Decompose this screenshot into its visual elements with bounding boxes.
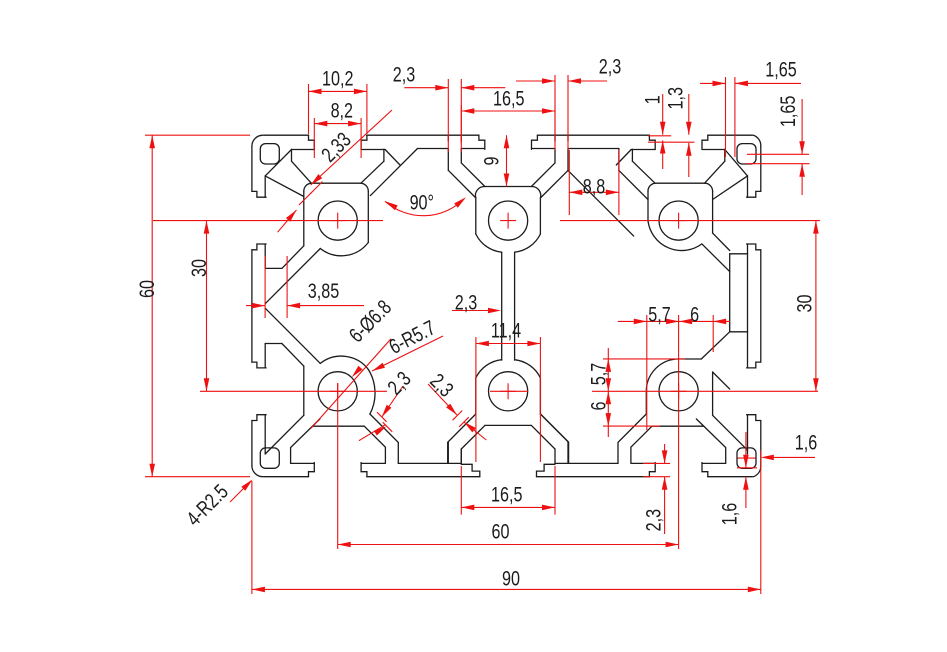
lead 6-R5.7 (372, 336, 443, 371)
svg-text:30: 30 (187, 259, 211, 277)
tube1 cavity wall right (383, 149, 385, 161)
tube3 cavity wall right (724, 149, 726, 161)
dim 8,8 arrow right (606, 190, 619, 196)
tube6 strut to chamber edge2 (713, 372, 730, 389)
svg-text:90: 90 (502, 566, 520, 590)
dim 9 arrow bot (504, 174, 510, 187)
left edge seg3 (251, 421, 253, 466)
arr 2,3bs b (662, 477, 668, 490)
ext 90 R (760, 450, 762, 594)
centre mark tube3 (671, 213, 687, 229)
tube6 SE strut edge2 (696, 419, 725, 464)
a6h2 (713, 319, 726, 325)
a57v2 (606, 378, 612, 391)
dim 10,2 arrow left (309, 89, 322, 95)
bore hole tube3 (659, 201, 698, 240)
top slot lip right x=679 (702, 135, 708, 149)
dim 2,3 ribs23 line (516, 80, 555, 82)
cavity col2 floor (485, 186, 532, 188)
side slot lip bottom edge x=252 y=391 (252, 415, 266, 421)
bottom center slot lip right (537, 464, 556, 476)
dim 1,65r tail dn (801, 164, 803, 195)
svg-text:60: 60 (492, 519, 510, 543)
ext 1,3 h (648, 141, 694, 143)
dim 16,5 bottom arrow right (542, 505, 555, 511)
dim 90 bottom arrow right (748, 587, 761, 593)
bottom slot lip left x=338 (309, 463, 315, 477)
left mid block top face (265, 267, 282, 269)
ext 10,2 L (308, 84, 310, 134)
bore hole tube4 (318, 372, 357, 411)
tick 2,3A 2 (383, 422, 393, 432)
tube2 right side (531, 186, 540, 234)
centre mark tube5 (500, 383, 516, 399)
ext 57h c (712, 315, 714, 352)
tube6 strut to chamber (701, 332, 729, 359)
bottom slot lip left x=679 (649, 463, 655, 477)
arr 2,3 web (488, 308, 501, 314)
notch23 rib right (567, 149, 569, 171)
arr 4-R2.5 (241, 480, 252, 491)
arr 2,3B a (446, 404, 457, 415)
dim 1,65t arrow b (735, 81, 748, 87)
dim 1,3 arrow a (686, 122, 692, 135)
svg-text:16,5: 16,5 (493, 86, 524, 110)
dim 90 bottom line (252, 588, 761, 590)
tick 2,33 1 (310, 182, 322, 194)
ext 16,5b R (554, 466, 556, 515)
dim 11,4 line (476, 343, 541, 345)
dim 30 right arrow top (813, 221, 819, 234)
dim 1,3 tail up (688, 94, 690, 135)
tube1 right wall (367, 192, 369, 243)
bottom edge seg1 (264, 476, 309, 478)
centerline col1 lower (337, 383, 339, 549)
dim 1,65r arrow a (799, 141, 805, 154)
arr 90deg L (385, 201, 398, 210)
dim 1,3 arrow b (686, 143, 692, 156)
tube6 foot outer flank (618, 414, 646, 463)
right chamber top (730, 253, 748, 255)
notch56 rib right (567, 442, 569, 464)
bottom slot lip right x=338 (361, 463, 367, 477)
tube6 east wall (712, 372, 714, 415)
notch45 rib right (460, 449, 462, 463)
lead 2,3A a (382, 386, 403, 417)
tick 2,3A 1 (377, 412, 387, 422)
dim 1,65t arrow a (713, 81, 726, 87)
ext 11,4 L (475, 337, 477, 462)
side slot lip top edge x=252 y=391 (252, 362, 266, 368)
a57h2 (679, 319, 692, 325)
lead 2,3A b (359, 425, 385, 441)
tube3 stub b (616, 150, 631, 166)
ext 8,2 R (360, 118, 362, 158)
tube3 cavity floor (655, 182, 705, 184)
arr 1,6 v2 (743, 477, 749, 490)
arr 2,3A b (374, 426, 387, 435)
bottom center slot lip left (461, 464, 480, 476)
notch23 ceiling (568, 148, 619, 150)
tick 2,33 2 (299, 193, 311, 205)
arr 1,6 v1 (743, 455, 749, 468)
dim 1 tail up (662, 94, 664, 135)
a57v1 (606, 359, 612, 372)
corner channel hole top-right (737, 144, 756, 164)
centre mark tube6 (671, 383, 687, 399)
notch23 strut to tube2 (540, 170, 568, 198)
ext 2,3b R (567, 75, 569, 150)
dim 9 line (506, 135, 508, 186)
arr 2,33 a (311, 174, 323, 185)
outer corner bottom-left (252, 466, 263, 477)
ext 1,65t L (725, 77, 727, 157)
bottom edge seg2 (367, 476, 480, 478)
ext 16,5t R (554, 105, 556, 143)
svg-text:10,2: 10,2 (322, 66, 353, 90)
svg-text:8,8: 8,8 (583, 174, 605, 198)
corner web face top-right (725, 150, 748, 176)
arr 2,3A a (382, 405, 392, 417)
shoulder left row2 upper (264, 344, 266, 368)
ext 2,3bs h2 (643, 476, 670, 478)
cavity below tube5 left flank (461, 425, 485, 449)
ext 8,2 L (313, 118, 315, 158)
bottom edge seg3 (537, 476, 650, 478)
dim 2,3 ribs12 line (404, 87, 448, 89)
tube3 diag to right shoulder (713, 176, 748, 200)
tick 2,3B 1 (453, 411, 463, 421)
a6v2 (606, 413, 612, 426)
notch12 stub b (385, 150, 400, 166)
tube2 left side (475, 186, 484, 234)
tube4 left wall (303, 366, 305, 415)
tube4 strut upper-left edge2 (265, 308, 320, 363)
dim 2,3 ribs23 arrow left (542, 78, 555, 84)
svg-text:1,3: 1,3 (664, 87, 688, 109)
dim 1,65r arrow b (799, 164, 805, 177)
svg-text:1,6: 1,6 (795, 430, 817, 454)
cavity below tube5 wall left (460, 449, 462, 463)
a57h1 (634, 319, 647, 325)
dim 5,7-6 v line (607, 348, 609, 437)
tube1 cavity floor (311, 182, 361, 184)
dim 8,8 arrow left (569, 190, 582, 196)
svg-text:1,65: 1,65 (776, 96, 800, 127)
side slot lip top edge x=252 y=221 (252, 191, 266, 197)
centerline row2 mid (490, 390, 528, 392)
dim 2,3 ribs23 arrow right (568, 78, 581, 84)
cavity col2 left flank (461, 163, 485, 187)
a6v1 (606, 391, 612, 404)
ext 1,6 h2 (737, 467, 757, 469)
arr 1,6 h (761, 455, 774, 461)
dim 8,2 line (314, 123, 361, 125)
shoulder top col3 right (702, 149, 725, 151)
corner channel hole bottom-left (260, 448, 279, 468)
tube6 SE strut edge1 (713, 415, 748, 450)
svg-text:2,3: 2,3 (641, 509, 665, 531)
shoulder left row2 (264, 415, 266, 454)
right chamber wall left (729, 254, 731, 332)
ext 60L bot (145, 476, 250, 478)
dim 11,4 arrow left (476, 341, 489, 347)
dim 1,3 tail dn (688, 143, 690, 177)
svg-text:30: 30 (792, 295, 816, 313)
tube4 top arc (320, 356, 368, 369)
tube5 top arc left (476, 360, 502, 378)
ext 57v a (603, 358, 685, 360)
shoulder top col2 left (461, 148, 485, 150)
tube1 cavity flank right (361, 161, 384, 183)
dim 16,5 bottom line (461, 506, 555, 508)
tube4 cavity ceiling (313, 425, 364, 427)
a6h1 (666, 319, 679, 325)
centre mark tube2 (500, 213, 516, 229)
shoulder top col2 right (532, 148, 556, 150)
centerline row2 right (592, 390, 818, 392)
tube3 bottom arc (648, 221, 702, 251)
ext 3,85 a (264, 256, 266, 318)
right edge seg3 (760, 421, 762, 466)
cavity below tube5 wall right (554, 449, 556, 463)
left edge seg1 (251, 146, 253, 191)
surface tick rib 568 (567, 135, 569, 141)
shoulder right row1 (747, 176, 749, 197)
arr 2,3B b (464, 422, 476, 432)
dim 9 arrow top (504, 135, 510, 148)
dim 1,6 h tail (766, 456, 815, 458)
tube2 bottom arc (476, 234, 502, 252)
shoulder top col1 right (361, 149, 385, 151)
ext 2,3a L (447, 79, 449, 152)
dim 3,85 line (287, 305, 364, 307)
tube3 plate arc left (648, 183, 655, 191)
top edge seg1 (264, 134, 309, 136)
dim 30 right arrow bot (813, 378, 819, 391)
lead 6-O6.8 (311, 339, 391, 428)
dim 5,7-6 h line (618, 320, 730, 322)
corner channel hole bottom-right (737, 448, 756, 468)
svg-text:2,3: 2,3 (393, 62, 415, 86)
tube4 SW strut edge2 (291, 419, 320, 464)
ext 60L top (145, 134, 250, 136)
svg-text:5,7: 5,7 (586, 363, 610, 385)
notch56 floor (568, 462, 618, 464)
shoulder top col1 left (292, 149, 315, 151)
column web wall right (514, 252, 516, 360)
ext 2,3b L (554, 75, 556, 150)
top slot lip right x=508 (532, 135, 538, 149)
notch56 strut rib (540, 414, 568, 442)
centre mark tube4 (330, 383, 346, 399)
tube1 plate arc right (361, 183, 368, 191)
side slot lip bottom edge x=761 y=391 (747, 415, 761, 421)
ext 2,3bs h1 (643, 462, 670, 464)
tube5 right flare (540, 414, 568, 463)
corner channel hole top-left (260, 144, 279, 164)
arr 90deg R (454, 197, 466, 208)
dim 10,2 arrow right (354, 89, 367, 95)
arr 3,85 L (252, 303, 265, 309)
dim 16,5 top line (461, 110, 555, 112)
bore hole tube1 (318, 201, 357, 240)
top slot lip right x=338 (361, 135, 367, 149)
ext 57h a (646, 315, 648, 430)
tube1 left wall (303, 192, 305, 246)
dim 60 bottom line (338, 544, 679, 546)
lead 2,33 a (311, 110, 392, 185)
ext 8,8 L (568, 150, 570, 215)
top slot lip left x=679 (649, 135, 655, 149)
tube4 SW strut edge1 (265, 415, 304, 454)
tube3 strut to chamber upper (713, 233, 730, 250)
dim 60 left arrow bot (149, 464, 155, 477)
dim 8,2 arrow left (314, 121, 327, 127)
dim 16,5 top arrow right (542, 108, 555, 114)
top slot lip left x=508 (479, 135, 485, 149)
right edge seg1 (760, 146, 762, 191)
dim 3,85 tail (246, 305, 265, 307)
shoulder bottom col3 left (631, 462, 655, 464)
bore hole tube5 (489, 372, 528, 411)
svg-text:1: 1 (640, 95, 664, 104)
left mid block bottom face (265, 343, 282, 345)
ext 1,65t R (734, 77, 736, 157)
tube3 plate arc right (705, 183, 713, 191)
dim 60 bottom arrow left (338, 542, 351, 548)
lead 2,3B b (464, 422, 486, 440)
dim 1,65t tailR (735, 82, 801, 84)
tube4 east blend (368, 369, 375, 414)
dim 1,6 v tail1 (745, 432, 747, 468)
dim 1 arrow a (660, 122, 666, 135)
dim 10,2 line (309, 90, 367, 92)
ext 11,4 R (539, 337, 541, 462)
dim 1 tail dn (662, 141, 664, 170)
lead 2,3 web (452, 310, 497, 312)
svg-text:8,2: 8,2 (331, 99, 353, 123)
arr 6-O6.8 (352, 366, 363, 378)
dim 2,3 ribs23 line2 (568, 80, 607, 82)
centerline row1 left (153, 220, 383, 222)
shoulder right row2 upper (747, 332, 749, 368)
top edge seg4 (708, 134, 753, 136)
dim 11,4 arrow right (527, 341, 540, 347)
tube6 north shelf (679, 358, 702, 360)
dim 1,65r tail up (801, 99, 803, 154)
column web wall left (501, 252, 503, 360)
tube4 foot outer flank (370, 414, 398, 463)
svg-text:90°: 90° (410, 190, 434, 214)
top edge seg3 (537, 134, 649, 136)
notch23 rib left (554, 149, 556, 163)
tube6 cavity ceiling (652, 425, 703, 427)
ext 8,8 R (618, 150, 620, 215)
tube6 quarter arc NW (646, 359, 678, 391)
tube4 foot inner flank (364, 426, 385, 463)
top edge seg2 (367, 134, 479, 136)
dim 2,3 ribs12 arrow left (435, 85, 448, 91)
cavity below tube5 right flank (531, 425, 555, 449)
dim 2,3 ribs12 line2 (461, 87, 505, 89)
outer corner top-left (252, 135, 263, 146)
centre mark tube1 (330, 213, 346, 229)
tube1 cavity flank left (292, 161, 312, 183)
notch12 rib left (447, 149, 449, 171)
side slot lip top edge x=761 y=391 (747, 362, 761, 368)
shoulder top col3 left (631, 149, 655, 151)
centre mark corner hole BR (738, 457, 756, 459)
notch23 right wall (618, 149, 620, 171)
ext 1,65r h1 (747, 153, 809, 155)
bottom slot lip right x=679 (702, 463, 708, 477)
tube1 strut lower-left edge2 (265, 249, 320, 304)
dim 16,5 top arrow left (461, 108, 474, 114)
tube3 strut to chamber lower (702, 244, 730, 272)
notch45 rib left (447, 442, 449, 463)
outer corner top-right (753, 135, 760, 146)
ext 57v c (603, 425, 660, 427)
dim 8,8 line (569, 191, 619, 193)
arr 2,3bs a (662, 450, 668, 463)
tube5 top arc right (515, 360, 541, 378)
tube3 cavity flank right (705, 161, 725, 183)
notch12 wall c (370, 149, 417, 196)
side slot lip top edge x=761 y=221 (747, 191, 761, 197)
ext 16,5t L (460, 105, 462, 143)
dim 60 bottom arrow right (666, 542, 679, 548)
tube3 right wall (712, 192, 714, 234)
notch12 rib right (460, 149, 462, 163)
svg-text:11,4: 11,4 (491, 318, 521, 342)
dim 1,65t tailL (700, 82, 726, 84)
tube1 cavity wall left (291, 149, 293, 161)
tube1 bottom arc (320, 243, 368, 256)
tube6 west wall (645, 391, 647, 414)
tube1 strut lower-left edge1 (282, 246, 304, 269)
svg-text:2,3: 2,3 (599, 54, 621, 78)
shoulder bottom col1 right (361, 462, 385, 464)
svg-text:6: 6 (586, 402, 610, 411)
bore hole tube6 (659, 372, 698, 411)
notch23 right flank (619, 170, 648, 199)
right edge seg2 (760, 250, 762, 362)
dim 90 bottom arrow left (252, 587, 265, 593)
dim 30 left arrow bot (204, 378, 210, 391)
dim 30 left line (206, 221, 208, 392)
right chamber bottom (730, 331, 748, 333)
dim 2,3 ribs12 arrow right (461, 85, 474, 91)
bottom edge seg4 (708, 476, 753, 478)
dim 60 left arrow top (149, 135, 155, 148)
dim 8,2 arrow right (348, 121, 361, 127)
notch45 floor (398, 462, 448, 464)
side slot lip bottom edge x=761 y=221 (747, 244, 761, 250)
right chamber wall right (747, 254, 749, 332)
cavity below tube5 shoulder left (448, 462, 462, 464)
notch12 ceiling (418, 148, 449, 150)
dim 1,6 v tail2 (745, 477, 747, 508)
svg-text:1,6: 1,6 (717, 503, 741, 525)
cavity below tube5 shoulder right (555, 462, 569, 464)
side slot lip bottom edge x=252 y=221 (252, 244, 266, 250)
shoulder right row2 (747, 415, 749, 454)
svg-text:16,5: 16,5 (491, 483, 522, 507)
svg-text:9: 9 (479, 157, 503, 166)
tube2 bottom arc right (515, 234, 541, 252)
tube6 foot inner flank (631, 426, 652, 463)
